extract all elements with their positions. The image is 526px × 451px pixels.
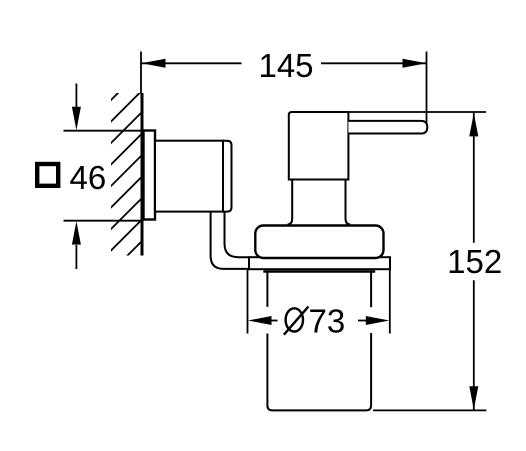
holder arm inner edge bbox=[225, 212, 251, 258]
arrowhead diameter 73 right bbox=[366, 316, 390, 325]
holder arm outer edge bbox=[211, 212, 250, 269]
dimension 145 line right segment bbox=[321, 62, 427, 64]
dimension 46: bottom arrow line bbox=[75, 245, 77, 269]
arrowhead 152 bottom bbox=[469, 386, 478, 409]
mount body bbox=[155, 141, 223, 212]
bottle rim bbox=[263, 270, 375, 273]
dimension 145 line left segment bbox=[142, 62, 242, 64]
dimension 152: bottom extension line bbox=[373, 409, 486, 411]
wall hatching bbox=[105, 66, 145, 278]
dimension 152: line lower segment bbox=[473, 280, 475, 410]
label diameter 73: phi symbol bbox=[284, 307, 309, 335]
arrowhead 152 top bbox=[469, 113, 478, 136]
dimension diameter 73: left line stub bbox=[271, 320, 278, 322]
svg-text:46: 46 bbox=[70, 159, 107, 196]
pump head bbox=[289, 112, 349, 180]
arrowhead diameter 73 left bbox=[248, 316, 272, 325]
svg-text:152: 152 bbox=[447, 243, 502, 280]
dimension 152: line upper segment bbox=[473, 113, 475, 243]
svg-text:73: 73 bbox=[309, 303, 346, 340]
dimension 46: bottom extension line bbox=[64, 220, 143, 222]
square symbol bbox=[37, 164, 58, 186]
dimension diameter 73: right extension line bbox=[389, 270, 391, 334]
dimension diameter 73: left extension line bbox=[247, 270, 249, 334]
dimension diameter 73: right line stub bbox=[358, 320, 366, 322]
glass bottle bbox=[267, 271, 371, 410]
arrowhead 46 bottom bbox=[72, 221, 81, 244]
pump lever bbox=[348, 121, 427, 134]
svg-text:145: 145 bbox=[258, 47, 313, 84]
mount flange plate bbox=[144, 131, 156, 220]
mount end cap bbox=[223, 141, 232, 212]
dimension 145 top: extension line left bbox=[140, 52, 142, 94]
arrowhead 145 right bbox=[403, 59, 427, 68]
dimension 152: top extension line bbox=[348, 111, 486, 113]
arrowhead 145 left bbox=[142, 59, 166, 68]
holder plate bbox=[249, 257, 390, 269]
wall face line bbox=[141, 93, 144, 256]
dimension 46: top arrow line bbox=[75, 84, 77, 109]
arrowhead 46 top bbox=[72, 107, 81, 130]
holder ring collar bbox=[255, 226, 383, 259]
dimension 145 top: extension line right bbox=[426, 52, 428, 124]
dimension 46: top extension line bbox=[64, 130, 143, 132]
pump neck bbox=[288, 180, 351, 225]
bottle wall gaps at dimension crossing bbox=[265, 307, 269, 334]
